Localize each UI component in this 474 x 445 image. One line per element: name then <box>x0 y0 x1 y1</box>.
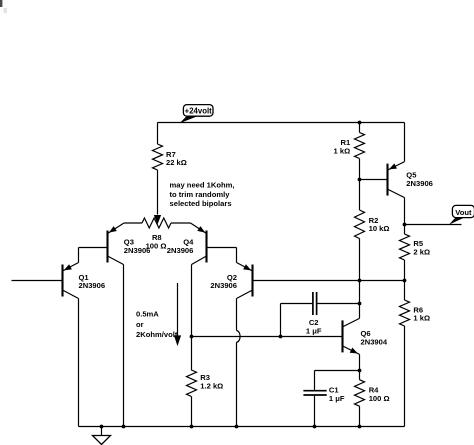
svg-text:+24volt: +24volt <box>185 106 212 115</box>
capacitor C2 <box>281 292 360 337</box>
resistor R4 <box>355 371 365 429</box>
wire Q2 collector with hop <box>235 299 240 429</box>
svg-text:1 μF: 1 μF <box>329 394 345 403</box>
label Q2 <box>210 273 237 290</box>
svg-text:1 kΩ: 1 kΩ <box>413 314 430 323</box>
transistor Q5 <box>388 123 405 225</box>
svg-text:0.5mA: 0.5mA <box>136 309 159 318</box>
svg-text:100 Ω: 100 Ω <box>369 394 390 403</box>
wire Q1 collector <box>78 299 80 427</box>
resistor R3 <box>187 370 197 428</box>
transistor Q2 <box>237 263 253 299</box>
callout Vout <box>449 205 474 224</box>
resistor R6 <box>400 281 410 427</box>
label C1 <box>329 386 345 403</box>
wire Q4b-Q2e <box>207 248 237 263</box>
svg-text:to trim randomly: to trim randomly <box>170 190 231 199</box>
transistor Q6 <box>343 318 360 370</box>
label Q1 <box>79 273 106 290</box>
label Q3 <box>124 238 151 255</box>
wiper arrow into R8 <box>154 215 161 225</box>
wire Q2 base <box>253 279 407 283</box>
transistor Q1 <box>63 263 79 299</box>
svg-text:Vout: Vout <box>455 208 472 217</box>
svg-text:1 kΩ: 1 kΩ <box>334 146 351 155</box>
note may-need <box>170 181 235 209</box>
svg-text:2N3906: 2N3906 <box>79 281 106 290</box>
svg-text:2N3906: 2N3906 <box>210 281 237 290</box>
svg-text:2N3906: 2N3906 <box>167 246 194 255</box>
wire input <box>12 280 63 282</box>
resistor R2 <box>355 180 365 281</box>
wire Q1e-Q3b <box>79 248 108 263</box>
resistor R5 <box>400 225 410 281</box>
wire bottom rail <box>79 426 405 428</box>
wire R2-Q6 collector <box>358 281 362 319</box>
svg-text:22 kΩ: 22 kΩ <box>166 158 187 167</box>
node Q4c-Q6base <box>190 335 194 339</box>
svg-text:may need 1Kohm,: may need 1Kohm, <box>170 181 235 190</box>
transistor Q4 <box>191 223 207 265</box>
wire Q3 collector <box>122 265 126 429</box>
svg-text:2N3906: 2N3906 <box>406 179 433 188</box>
wire Q6 base <box>192 335 343 339</box>
wire +24V top rail <box>158 122 405 124</box>
label R1 <box>334 138 351 155</box>
resistor R1 <box>355 121 365 180</box>
label R5 <box>413 239 430 256</box>
scan artifact top-left <box>0 0 7 13</box>
svg-text:2N3906: 2N3906 <box>124 246 151 255</box>
current arrow 0.5mA <box>174 283 181 346</box>
label R6 <box>413 305 430 322</box>
wire Q4 collector <box>191 265 193 371</box>
label R3 <box>200 373 223 390</box>
label Q5 <box>406 171 433 188</box>
svg-text:2Kohm/volt: 2Kohm/volt <box>136 330 178 339</box>
label R2 <box>369 216 390 233</box>
ground <box>93 425 111 445</box>
wire Q5 base <box>360 179 388 181</box>
resistor R8 <box>124 218 191 228</box>
node Q5c-R5 <box>403 223 407 227</box>
transistor Q3 <box>108 223 125 265</box>
callout +24volt <box>180 105 214 124</box>
capacitor C1 <box>303 371 326 429</box>
label R8 <box>146 233 167 250</box>
label C2 <box>306 318 322 335</box>
svg-text:1.2 kΩ: 1.2 kΩ <box>200 382 223 391</box>
svg-text:or: or <box>136 320 144 329</box>
svg-text:selected bipolars: selected bipolars <box>170 199 232 208</box>
svg-text:2 kΩ: 2 kΩ <box>413 247 430 256</box>
label R4 <box>369 386 390 403</box>
svg-text:1 μF: 1 μF <box>306 327 322 336</box>
resistor R7 <box>153 123 163 215</box>
label R7 <box>166 150 187 167</box>
svg-text:2N3904: 2N3904 <box>361 338 388 347</box>
label Q4 <box>167 238 194 255</box>
wire C1-R4 <box>315 369 362 373</box>
label Q6 <box>361 329 388 346</box>
wire Vout <box>405 224 462 226</box>
note current <box>136 309 178 339</box>
svg-text:10 kΩ: 10 kΩ <box>369 224 390 233</box>
node R1-R2-Q5b <box>358 178 362 182</box>
